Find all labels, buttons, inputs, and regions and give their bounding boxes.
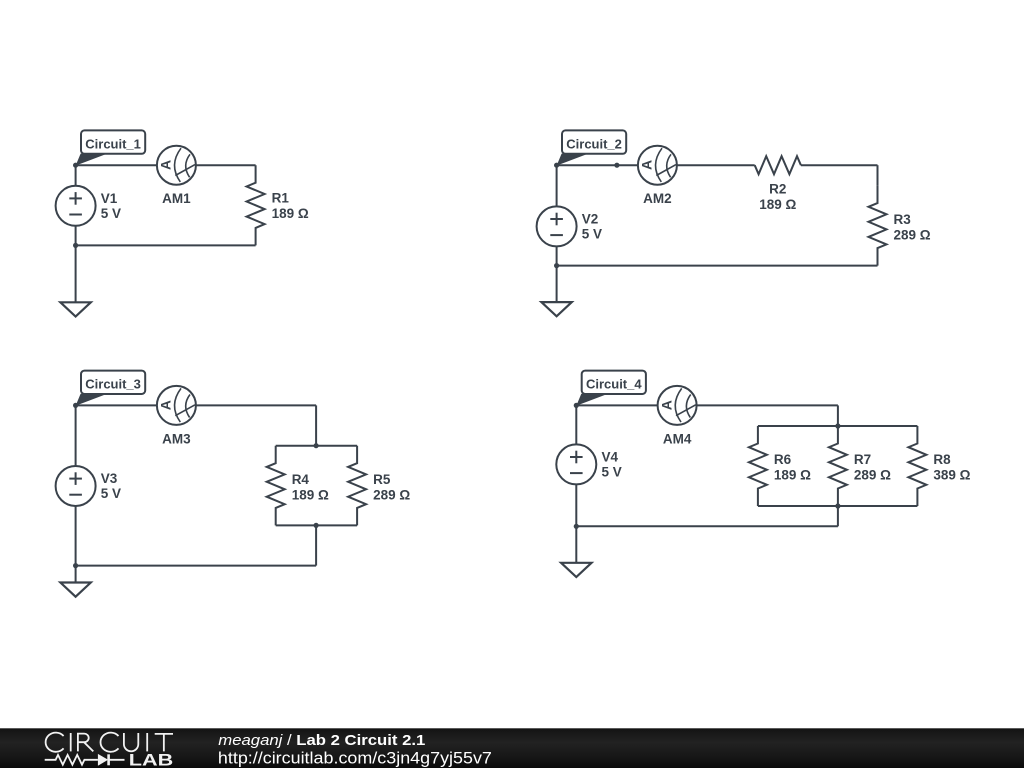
svg-text:Circuit_4: Circuit_4	[586, 377, 642, 392]
svg-text:5 V: 5 V	[101, 486, 121, 501]
svg-text:289 Ω: 289 Ω	[373, 487, 410, 502]
R6 value label 189 ohm	[774, 452, 811, 483]
wire node to V2	[556, 165, 558, 206]
ammeter AM4	[658, 386, 697, 425]
wire down to bottom rail	[315, 525, 317, 565]
svg-text:V1: V1	[101, 191, 118, 206]
bottom wire	[76, 244, 256, 246]
net label flag Circuit_2	[557, 130, 627, 165]
R8 value label 389 ohm	[933, 452, 970, 483]
svg-text:R4: R4	[292, 472, 310, 487]
svg-text:V4: V4	[602, 450, 619, 465]
R4 value label 189 ohm	[292, 472, 329, 503]
junction top of parallel pair	[314, 443, 319, 448]
svg-text:A: A	[158, 400, 174, 410]
svg-text:AM4: AM4	[663, 431, 692, 446]
svg-text:189 Ω: 189 Ω	[759, 197, 796, 212]
V1 value label 5 V	[101, 191, 121, 221]
net label flag Circuit_1	[76, 130, 146, 165]
svg-text:meaganj / Lab 2 Circuit 2.1: meaganj / Lab 2 Circuit 2.1	[218, 732, 425, 749]
parallel bottom bar	[276, 524, 357, 526]
svg-text:389 Ω: 389 Ω	[933, 468, 970, 483]
parallel top bar	[276, 445, 357, 447]
svg-text:R1: R1	[272, 191, 290, 206]
R5 value label 289 ohm	[373, 472, 410, 503]
svg-text:5 V: 5 V	[602, 465, 622, 480]
svg-text:A: A	[158, 160, 174, 170]
CircuitLab logo wordmark CIRCUIT	[46, 733, 173, 752]
wire V3 to bottom rail	[75, 506, 77, 566]
junction bottom of parallel pair	[314, 523, 319, 528]
node at V2 top / Circuit_2	[554, 163, 559, 168]
svg-text:Circuit_2: Circuit_2	[566, 136, 622, 151]
ammeter AM2	[638, 146, 677, 185]
wire corner down to R3	[877, 165, 879, 185]
wire V1 to bottom node	[75, 226, 77, 246]
junction at bottom rail	[574, 524, 579, 529]
wire node to AM4	[576, 404, 657, 406]
junction bottom of parallel trio	[835, 503, 840, 508]
ground	[541, 302, 571, 316]
parallel top bar	[758, 425, 918, 427]
ground	[60, 583, 90, 597]
wire node to V1	[75, 165, 77, 186]
bottom rail	[76, 565, 317, 567]
svg-text:289 Ω: 289 Ω	[894, 227, 931, 242]
junction at V1 bottom	[73, 243, 78, 248]
svg-text:V3: V3	[101, 471, 118, 486]
ammeter AM3	[157, 386, 196, 425]
svg-text:5 V: 5 V	[582, 227, 602, 242]
junction at V2 bottom	[554, 263, 559, 268]
V4 value label 5 V	[602, 450, 622, 480]
footer bar	[0, 728, 1024, 768]
svg-text:R7: R7	[854, 452, 871, 467]
svg-text:189 Ω: 189 Ω	[774, 468, 811, 483]
node at V1 top / Circuit_1	[73, 163, 78, 168]
voltage source V3	[56, 466, 96, 506]
wire to ground	[75, 566, 77, 582]
wire R2 to corner	[801, 164, 878, 166]
R7 value label 289 ohm	[854, 452, 891, 483]
R1 value label 189 ohm	[272, 191, 309, 222]
wire node to AM1	[76, 164, 157, 166]
svg-text:AM1: AM1	[162, 191, 191, 206]
R2 value label 189 ohm	[759, 182, 796, 213]
junction dot on top wire	[614, 163, 619, 168]
V2 value label 5 V	[582, 212, 602, 242]
svg-text:Circuit_3: Circuit_3	[85, 377, 141, 392]
net label flag Circuit_4	[576, 371, 646, 406]
junction top of parallel trio	[835, 423, 840, 428]
wire AM4 to corner	[697, 404, 838, 406]
wire AM3 to corner	[196, 404, 316, 406]
svg-text:R5: R5	[373, 472, 391, 487]
bottom rail	[576, 525, 838, 527]
wire AM2 to R2	[677, 164, 755, 166]
svg-text:189 Ω: 189 Ω	[272, 206, 309, 221]
net label flag Circuit_3	[76, 371, 146, 406]
node at V4 top / Circuit_4	[574, 403, 579, 408]
wire to ground	[575, 526, 577, 562]
ammeter AM1	[157, 146, 196, 185]
node at V3 top / Circuit_3	[73, 403, 78, 408]
wire corner down to parallel trio	[837, 405, 839, 426]
wire AM1 to R1	[196, 164, 256, 166]
resistor R8	[908, 426, 926, 506]
voltage source V2	[537, 206, 577, 246]
svg-text:5 V: 5 V	[101, 206, 121, 221]
wire corner down to parallel pair	[315, 405, 317, 445]
wire node to AM3	[76, 404, 157, 406]
svg-text:AM3: AM3	[162, 431, 191, 446]
resistor R4	[267, 446, 285, 526]
svg-text:http://circuitlab.com/c3jn4g7y: http://circuitlab.com/c3jn4g7yj55v7	[218, 749, 492, 768]
resistor R5	[348, 446, 366, 526]
voltage source V4	[556, 444, 596, 484]
V3 value label 5 V	[101, 471, 121, 501]
R3 value label 289 ohm	[894, 212, 931, 243]
svg-text:V2: V2	[582, 212, 599, 227]
wire to ground	[75, 245, 77, 301]
ground	[60, 302, 90, 316]
svg-text:LAB: LAB	[129, 751, 174, 768]
parallel bottom bar	[758, 505, 918, 507]
ground	[561, 563, 591, 577]
svg-text:A: A	[639, 160, 655, 170]
voltage source V1	[56, 186, 96, 226]
bottom wire	[557, 265, 878, 267]
wire to ground	[556, 266, 558, 302]
resistor R2	[755, 156, 801, 174]
wire V4 to bottom rail	[575, 484, 577, 526]
wire node to AM2	[557, 164, 638, 166]
svg-text:R6: R6	[774, 452, 792, 467]
svg-text:AM2: AM2	[643, 191, 672, 206]
svg-text:R2: R2	[769, 182, 786, 197]
svg-text:189 Ω: 189 Ω	[292, 487, 329, 502]
svg-text:Circuit_1: Circuit_1	[85, 136, 141, 151]
resistor R3	[869, 186, 887, 266]
wire V2 to bottom node	[556, 246, 558, 265]
resistor R1	[247, 165, 265, 245]
CircuitLab logo resistor and diode	[45, 755, 125, 765]
svg-text:A: A	[658, 400, 674, 410]
resistor R6	[749, 426, 767, 506]
svg-text:289 Ω: 289 Ω	[854, 468, 891, 483]
wire node to V3	[75, 405, 77, 466]
svg-text:R3: R3	[894, 212, 912, 227]
svg-text:R8: R8	[933, 452, 951, 467]
wire down to bottom rail	[837, 506, 839, 526]
junction at bottom rail	[73, 563, 78, 568]
wire node to V4	[575, 405, 577, 444]
resistor R7	[829, 426, 847, 506]
